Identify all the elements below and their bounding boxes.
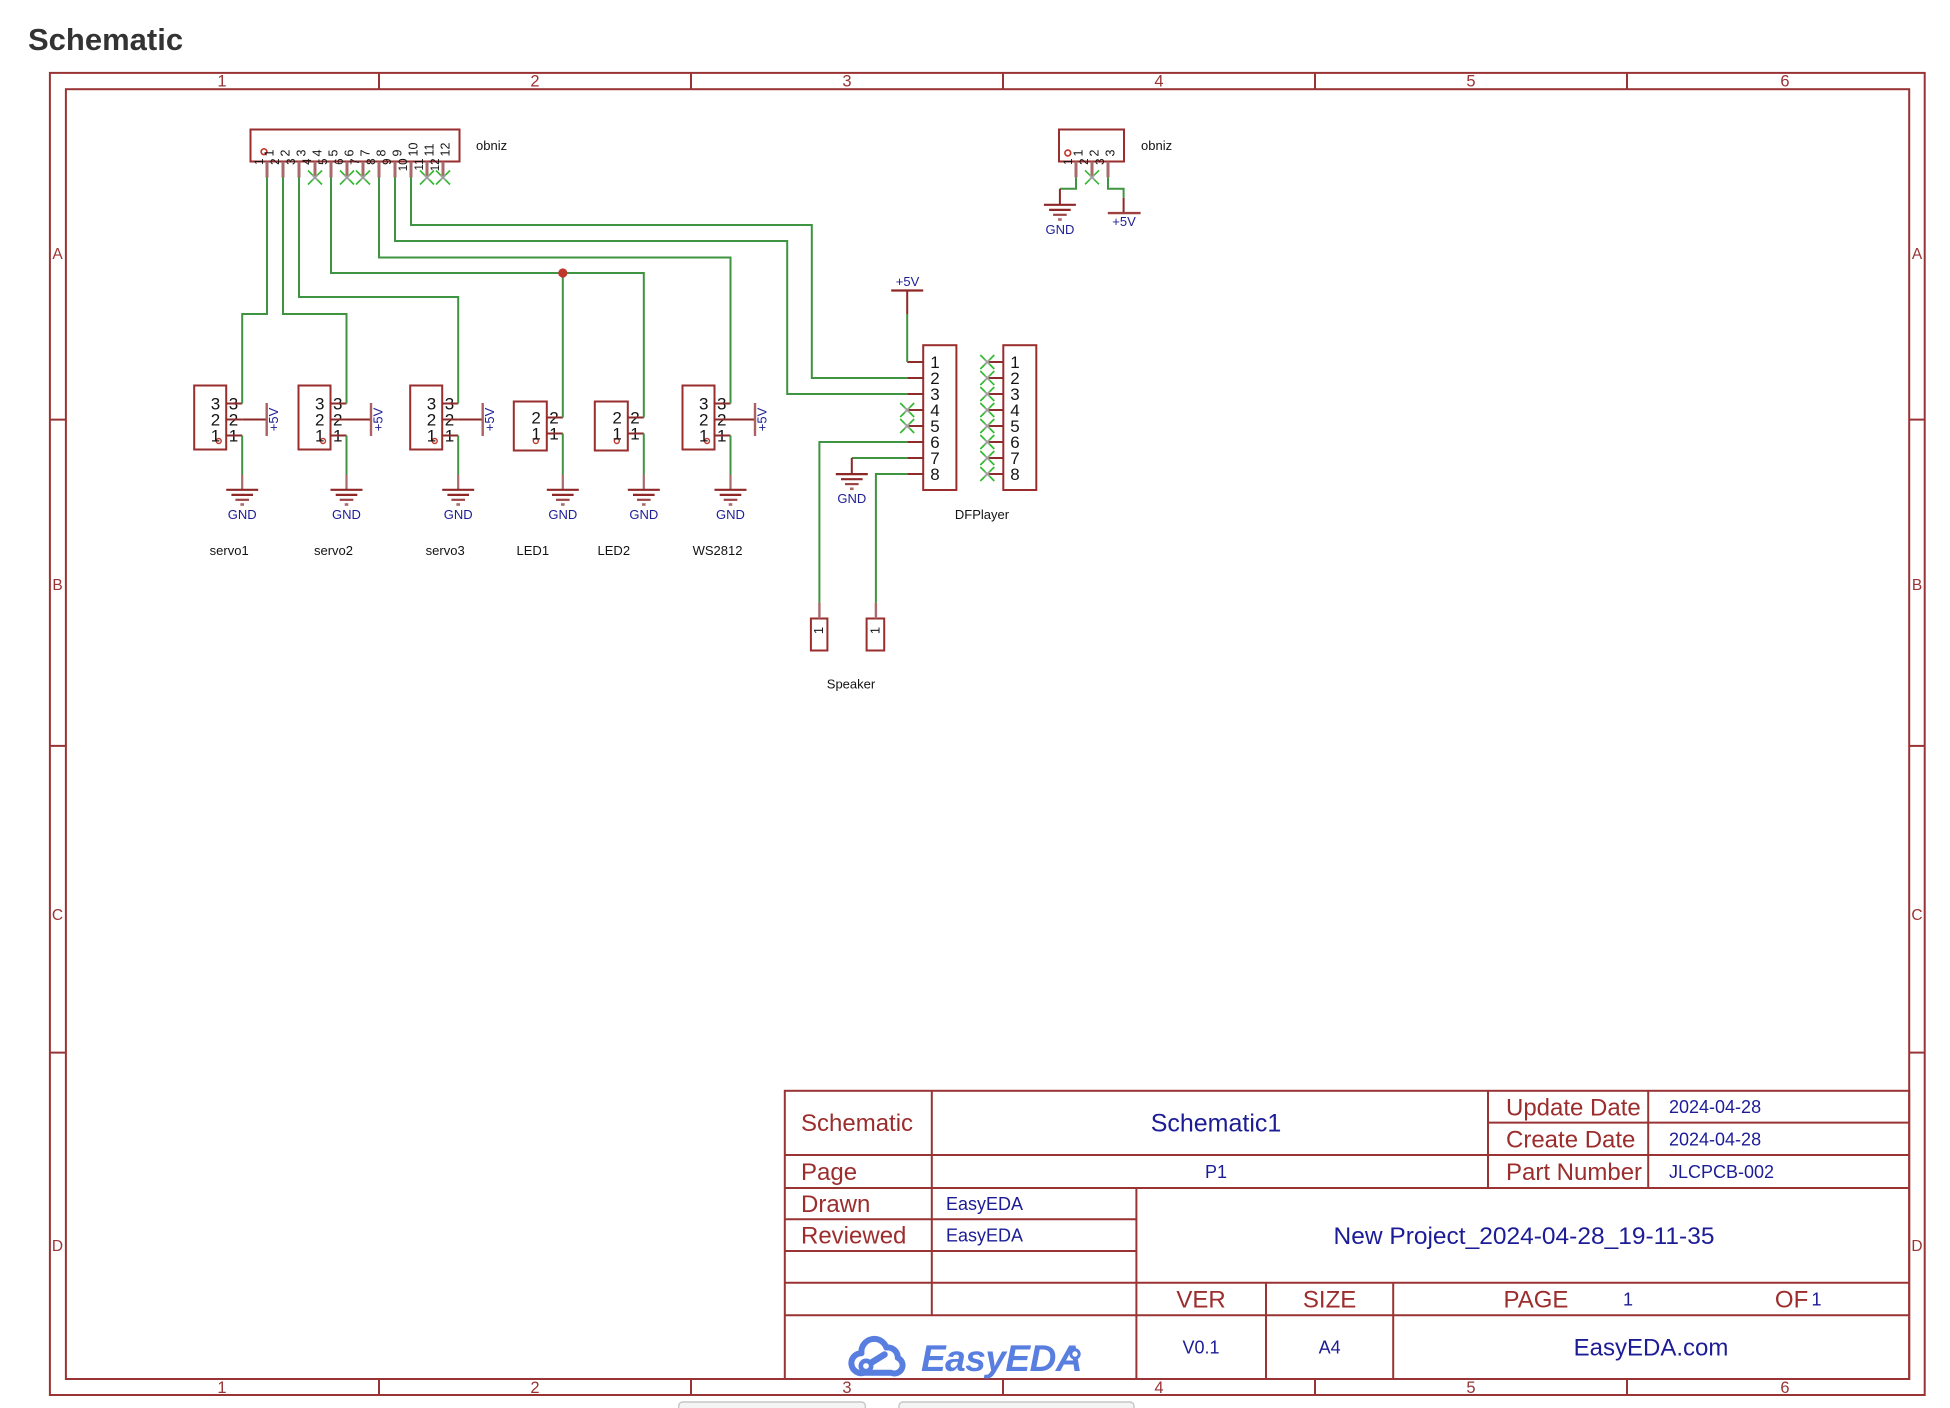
wire servo2 pin1 to GND <box>346 436 348 475</box>
svg-text:7: 7 <box>359 150 373 157</box>
power flag +5V (servo3 pin2) <box>458 403 483 436</box>
LED1 pin name numbers (inside) <box>531 408 540 443</box>
svg-text:EasyEDA: EasyEDA <box>921 1338 1082 1379</box>
wire obniz2 pin1 to GND <box>1060 177 1076 189</box>
svg-text:servo2: servo2 <box>314 543 353 558</box>
ground symbol (WS2812 pin1) <box>729 475 731 490</box>
svg-text:12: 12 <box>430 159 442 172</box>
Speaker left pin stub <box>818 603 820 619</box>
connector servo2 (3-pin) <box>299 386 331 450</box>
svg-text:6: 6 <box>334 159 346 165</box>
connector WS2812 (3-pin) <box>683 386 715 450</box>
svg-text:+5V: +5V <box>482 407 497 431</box>
EasyEDA logo cloud icon <box>851 1339 902 1374</box>
svg-text:6: 6 <box>1780 1379 1789 1397</box>
svg-text:+5V: +5V <box>1112 214 1136 229</box>
svg-text:1: 1 <box>1623 1289 1633 1309</box>
svg-text:2024-04-28: 2024-04-28 <box>1669 1129 1761 1149</box>
ground symbol (servo1 pin1) <box>241 475 243 490</box>
DFPlayer right pins (stubs) <box>987 362 1003 474</box>
svg-text:4: 4 <box>311 150 325 157</box>
power flag +5V (WS2812 pin2) <box>731 403 756 436</box>
svg-text:DFPlayer: DFPlayer <box>955 507 1010 522</box>
svg-text:OF: OF <box>1775 1287 1808 1314</box>
svg-text:Page: Page <box>801 1159 857 1186</box>
svg-text:1: 1 <box>811 627 826 634</box>
svg-text:3: 3 <box>286 159 298 165</box>
svg-text:+5V: +5V <box>755 407 770 431</box>
svg-text:LED2: LED2 <box>598 543 631 558</box>
no-connect mark on obniz2 pin 2 <box>1085 170 1099 184</box>
wire branch to LED1 pin2 <box>562 273 564 418</box>
svg-text:7: 7 <box>350 159 362 165</box>
svg-text:obniz: obniz <box>476 138 507 153</box>
svg-text:Create Date: Create Date <box>1506 1126 1635 1153</box>
LED2 pin name numbers (inside) <box>612 408 621 443</box>
svg-text:Speaker: Speaker <box>827 677 876 692</box>
servo2 pin name numbers (inside) <box>315 394 324 445</box>
servo1 pins (stubs) <box>226 404 242 436</box>
obniz2 pin numbers 1-3 (outside) <box>1063 159 1107 165</box>
svg-text:D: D <box>1911 1238 1922 1255</box>
svg-text:2: 2 <box>530 73 539 91</box>
svg-text:GND: GND <box>837 491 866 506</box>
svg-text:JLCPCB-002: JLCPCB-002 <box>1669 1162 1774 1182</box>
svg-text:3: 3 <box>842 73 851 91</box>
svg-text:D: D <box>52 1238 63 1255</box>
svg-text:servo1: servo1 <box>210 543 249 558</box>
connector servo1 (3-pin) <box>194 386 226 450</box>
svg-text:2: 2 <box>279 150 293 157</box>
svg-text:VER: VER <box>1176 1287 1225 1314</box>
wire net obniz pin5 to LED1/LED2 pin2 <box>331 178 644 418</box>
svg-text:8: 8 <box>930 465 939 484</box>
svg-text:2: 2 <box>1079 159 1091 165</box>
svg-text:3: 3 <box>842 1379 851 1397</box>
svg-text:5: 5 <box>327 150 341 157</box>
DFPlayer right pin name numbers 1-8 <box>1010 353 1019 484</box>
svg-text:EasyEDA.com: EasyEDA.com <box>1574 1335 1729 1362</box>
wire net obniz pin10 to DFPlayer pin2 <box>411 178 907 379</box>
wire obniz2 pin3 to +5V <box>1108 177 1124 198</box>
ground symbol (servo3 pin1) <box>457 475 459 490</box>
DFPlayer left pin name numbers 1-8 <box>930 353 939 484</box>
svg-text:GND: GND <box>629 507 658 522</box>
WS2812 pin numbers (outside) <box>717 394 726 445</box>
wire servo3 pin1 to GND <box>457 436 459 475</box>
svg-text:Part Number: Part Number <box>1506 1159 1642 1186</box>
svg-text:V0.1: V0.1 <box>1182 1338 1219 1358</box>
svg-text:Schematic: Schematic <box>28 22 183 57</box>
svg-text:9: 9 <box>391 150 405 157</box>
svg-text:1: 1 <box>263 150 277 157</box>
connector DFPlayer left (8-pin) <box>923 345 956 490</box>
wire net obniz pin8 to WS2812 pin3 <box>379 178 731 404</box>
svg-text:A: A <box>52 246 63 263</box>
svg-text:GND: GND <box>548 507 577 522</box>
svg-text:LED1: LED1 <box>517 543 550 558</box>
svg-text:4: 4 <box>302 158 314 165</box>
svg-text:Schematic1: Schematic1 <box>1151 1110 1282 1138</box>
wire DFPlayer pin8 to Speaker right <box>876 474 907 603</box>
svg-text:5: 5 <box>318 159 330 165</box>
obniz pins (stubs) <box>267 162 443 178</box>
wire net obniz pin1 to servo1 pin3 <box>242 178 267 404</box>
svg-text:3: 3 <box>1095 159 1107 165</box>
wire servo1 pin1 to GND <box>241 436 243 475</box>
svg-text:GND: GND <box>1045 222 1074 237</box>
wire net obniz pin9 to DFPlayer pin3 <box>395 178 907 395</box>
svg-text:8: 8 <box>366 159 378 165</box>
svg-text:2: 2 <box>1088 150 1102 157</box>
obniz2 pins (stubs) <box>1076 162 1108 178</box>
svg-text:GND: GND <box>332 507 361 522</box>
no-connect marks DFPlayer right pins 1-8 <box>980 355 994 481</box>
svg-text:+5V: +5V <box>896 274 920 289</box>
svg-text:5: 5 <box>1466 73 1475 91</box>
connector LED2 (2-pin) <box>595 402 628 451</box>
svg-text:Schematic: Schematic <box>801 1110 913 1137</box>
svg-text:EasyEDA: EasyEDA <box>946 1194 1023 1214</box>
svg-text:1: 1 <box>1072 150 1086 157</box>
power flag +5V (obniz2 pin3, pointing down) <box>1108 198 1141 213</box>
svg-text:11: 11 <box>414 159 426 171</box>
wire net obniz pin3 to servo3 pin3 <box>299 178 458 404</box>
svg-text:+5V: +5V <box>371 407 386 431</box>
svg-text:12: 12 <box>439 143 453 157</box>
svg-text:1: 1 <box>1811 1289 1821 1309</box>
svg-text:8: 8 <box>1010 465 1019 484</box>
wire +5V to DFPlayer pin1 <box>906 314 908 362</box>
frame column numbers top <box>217 73 1789 91</box>
svg-text:5: 5 <box>1466 1379 1475 1397</box>
svg-text:C: C <box>52 907 63 924</box>
svg-text:9: 9 <box>382 159 394 165</box>
svg-text:Drawn: Drawn <box>801 1191 870 1218</box>
svg-text:C: C <box>1911 907 1922 924</box>
ground symbol (LED2 pin1) <box>643 475 645 490</box>
wire WS2812 pin1 to GND <box>730 436 732 475</box>
ground symbol (LED1 pin1) <box>562 475 564 490</box>
connector Speaker left (1-pin) <box>811 619 828 651</box>
svg-text:1: 1 <box>254 159 266 165</box>
frame row letters left <box>52 246 63 1255</box>
LED2 pins (stubs) <box>628 418 644 434</box>
svg-text:10: 10 <box>398 159 410 172</box>
power flag +5V (servo1 pin2) <box>242 403 267 436</box>
svg-text:Update Date: Update Date <box>1506 1094 1641 1121</box>
svg-text:3: 3 <box>1104 150 1118 157</box>
wire LED2 pin1 to GND <box>643 434 645 475</box>
svg-text:1: 1 <box>217 1379 226 1397</box>
svg-text:8: 8 <box>375 150 389 157</box>
svg-text:obniz: obniz <box>1141 138 1172 153</box>
svg-text:P1: P1 <box>1205 1162 1227 1182</box>
svg-text:1: 1 <box>868 627 883 634</box>
connector servo3 (3-pin) <box>410 386 442 450</box>
svg-text:GND: GND <box>228 507 257 522</box>
servo2 pin numbers (outside) <box>333 394 342 445</box>
svg-text:1: 1 <box>1063 159 1075 165</box>
svg-text:11: 11 <box>423 143 437 156</box>
ground symbol (DFPlayer pin7) <box>851 458 853 474</box>
svg-text:1: 1 <box>217 73 226 91</box>
bottom UI chip 2 <box>899 1402 1134 1408</box>
svg-text:servo3: servo3 <box>426 543 465 558</box>
obniz pin numbers 1-12 (outside) <box>254 158 442 171</box>
no-connect marks DFPlayer left pins 4,5 <box>900 403 914 433</box>
svg-text:2024-04-28: 2024-04-28 <box>1669 1097 1761 1117</box>
frame row letters right <box>1911 246 1922 1255</box>
svg-text:New Project_2024-04-28_19-11-3: New Project_2024-04-28_19-11-35 <box>1334 1223 1715 1250</box>
title block table <box>785 1091 1909 1379</box>
svg-text:1: 1 <box>315 426 324 445</box>
wire net obniz pin2 to servo2 pin3 <box>283 178 347 404</box>
svg-text:1: 1 <box>699 426 708 445</box>
junction dot (LED net) <box>558 268 567 277</box>
power flag +5V (DFPlayer pin1, pointing up) <box>891 291 923 315</box>
power flag +5V (servo2 pin2) <box>347 403 372 436</box>
svg-text:EasyEDA: EasyEDA <box>946 1226 1023 1246</box>
svg-text:WS2812: WS2812 <box>693 543 743 558</box>
servo3 pin numbers (outside) <box>445 394 454 445</box>
svg-text:10: 10 <box>407 143 421 157</box>
svg-text:2: 2 <box>270 159 282 165</box>
svg-text:A: A <box>1912 246 1923 263</box>
wire DFPlayer pin7 to GND <box>852 457 907 459</box>
svg-text:1: 1 <box>211 426 220 445</box>
obniz2 pin name numbers 1-3 (inside) <box>1072 150 1118 157</box>
svg-text:4: 4 <box>1154 73 1163 91</box>
connector LED1 (2-pin) <box>514 402 547 451</box>
svg-text:Reviewed: Reviewed <box>801 1223 906 1250</box>
svg-text:+5V: +5V <box>266 407 281 431</box>
connector DFPlayer right (8-pin) <box>1003 345 1036 490</box>
Speaker right pin stub <box>875 603 877 619</box>
svg-text:1: 1 <box>427 426 436 445</box>
ground symbol (servo2 pin1) <box>345 475 347 490</box>
WS2812 pin name numbers (inside) <box>699 394 708 445</box>
svg-text:SIZE: SIZE <box>1303 1287 1356 1314</box>
svg-text:GND: GND <box>716 507 745 522</box>
svg-text:B: B <box>1912 577 1922 594</box>
obniz pin name numbers 1-12 (inside) <box>263 143 453 157</box>
DFPlayer left pins (stubs) <box>907 362 923 474</box>
svg-text:3: 3 <box>295 150 309 157</box>
LED1 pins (stubs) <box>547 418 563 434</box>
servo2 pins (stubs) <box>331 404 347 436</box>
servo1 pin name numbers (inside) <box>211 394 220 445</box>
wire LED1 pin1 to GND <box>562 434 564 475</box>
connector Speaker right (1-pin) <box>867 619 885 651</box>
frame column numbers bottom <box>217 1379 1789 1397</box>
servo1 pin numbers (outside) <box>229 394 238 445</box>
svg-text:B: B <box>52 577 62 594</box>
WS2812 pins (stubs) <box>715 404 731 436</box>
bottom UI chip 1 <box>679 1402 866 1408</box>
svg-text:1: 1 <box>612 424 621 443</box>
svg-text:GND: GND <box>444 507 473 522</box>
EasyEDA logo A-dot <box>1071 1350 1079 1358</box>
svg-text:PAGE: PAGE <box>1504 1287 1569 1314</box>
svg-text:4: 4 <box>1154 1379 1163 1397</box>
LED2 pin numbers (outside) <box>630 408 639 443</box>
svg-text:2: 2 <box>530 1379 539 1397</box>
LED1 pin numbers (outside) <box>549 408 558 443</box>
connector obniz (12-pin header) <box>251 130 460 162</box>
svg-text:6: 6 <box>1780 73 1789 91</box>
svg-text:A4: A4 <box>1319 1338 1341 1358</box>
connector obniz (3-pin header) <box>1059 130 1124 162</box>
servo3 pins (stubs) <box>442 404 458 436</box>
svg-text:6: 6 <box>343 150 357 157</box>
no-connect marks on obniz pins 4,6,7,11,12 <box>308 171 450 185</box>
wire DFPlayer pin6 to Speaker left <box>819 442 907 603</box>
svg-text:1: 1 <box>531 424 540 443</box>
servo3 pin name numbers (inside) <box>427 394 436 445</box>
ground symbol (obniz2 pin1) <box>1059 189 1061 205</box>
